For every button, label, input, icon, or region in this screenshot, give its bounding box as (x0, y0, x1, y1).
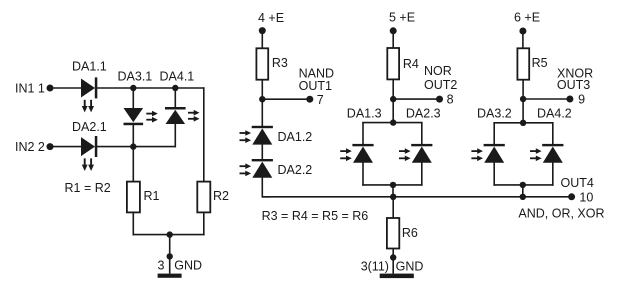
wire terminal 6 to R5 (522, 31, 524, 48)
resistor R6 (387, 218, 399, 249)
photodiode DA4.2 (530, 144, 563, 163)
LED DA2.1 (81, 136, 97, 171)
photodiode DA3.2 (471, 144, 504, 163)
resistor R3 (256, 48, 268, 79)
svg-text:DA1.1: DA1.1 (72, 59, 107, 73)
junction NOR bottom (390, 182, 396, 188)
svg-text:DA2.2: DA2.2 (278, 163, 313, 177)
resistor R1 (127, 182, 140, 213)
node pin 3(11) dot (390, 254, 396, 260)
svg-text:4 +E: 4 +E (258, 11, 284, 25)
svg-text:NOR: NOR (424, 64, 452, 78)
svg-text:R5: R5 (532, 56, 548, 70)
svg-text:DA1.3: DA1.3 (347, 106, 382, 120)
svg-text:DA2.3: DA2.3 (406, 106, 441, 120)
wire NOR bottom to bus (392, 185, 394, 197)
wire IN1 to DA1.1 anode (50, 87, 82, 89)
svg-text:DA3.1: DA3.1 (118, 69, 153, 83)
ground bar (158, 274, 182, 278)
wire DA2.2 to bus corner (262, 178, 270, 197)
wire right branch corner down to R2 (203, 87, 205, 181)
svg-text:6 +E: 6 +E (514, 11, 540, 25)
wire R3 to DA1.2 (261, 80, 263, 126)
wire DA2.1 cathode to DA4.1 corner (97, 146, 175, 148)
wire DA1.2 to DA2.2 (261, 145, 263, 160)
svg-text:3: 3 (158, 259, 165, 273)
wire bottom rail R1-R2 (133, 234, 205, 236)
terminal IN1 (47, 85, 54, 92)
svg-text:OUT1: OUT1 (299, 79, 332, 93)
svg-text:10: 10 (579, 191, 593, 205)
wire NOR branch top connector (362, 122, 422, 124)
junction bottom rail (167, 231, 173, 237)
svg-text:R3 = R4 = R5 = R6: R3 = R4 = R5 = R6 (262, 209, 369, 223)
terminal 8 (436, 96, 443, 103)
svg-text:GND: GND (396, 260, 424, 274)
wire to terminal 8 (393, 98, 439, 100)
svg-text:DA4.1: DA4.1 (160, 69, 195, 83)
terminal 9 (566, 96, 573, 103)
svg-text:R4: R4 (403, 57, 419, 71)
wire R4 to branch top (392, 79, 394, 122)
junction OUT3 (520, 96, 526, 102)
wire ground stub (169, 235, 171, 274)
svg-text:OUT3: OUT3 (557, 78, 590, 92)
wire XNOR left drop (493, 123, 495, 145)
svg-text:DA4.2: DA4.2 (537, 106, 572, 120)
wire NOR left drop (362, 123, 364, 145)
wire to terminal 9 (523, 98, 570, 100)
svg-text:R1: R1 (144, 189, 160, 203)
wire DA1.1 cathode to right corner (97, 87, 204, 89)
terminal 6 (519, 28, 526, 35)
terminal 4 (259, 27, 266, 34)
wire terminal 4 to R3 (261, 31, 263, 49)
node pin 3 dot (167, 253, 173, 259)
svg-text:OUT4: OUT4 (561, 176, 594, 190)
svg-text:IN2 2: IN2 2 (15, 140, 45, 154)
wire bus to R6 (392, 197, 394, 218)
LED DA3.1 (124, 108, 158, 125)
svg-text:R2: R2 (213, 189, 229, 203)
wire output bus (262, 196, 571, 198)
junction XNOR bottom (520, 182, 526, 188)
wire NOR bottom connector (362, 184, 422, 186)
wire IN2 to DA2.1 anode (50, 146, 82, 148)
svg-text:DA3.2: DA3.2 (477, 106, 512, 120)
wire XNOR branch top connector (493, 122, 553, 124)
svg-text:8: 8 (447, 93, 454, 107)
photodiode DA1.3 (340, 144, 373, 163)
wire DA1.3 to bottom connector (362, 163, 364, 186)
terminal 7 (306, 96, 313, 103)
wire XNOR bottom to bus (522, 185, 524, 197)
wire DA4.1 anode down to IN2 row (174, 124, 176, 147)
svg-text:R3: R3 (272, 56, 288, 70)
resistor R2 (197, 182, 210, 213)
junction top of DA3.1 (130, 85, 136, 91)
resistor R4 (387, 48, 399, 79)
junction OUT1 (259, 96, 265, 102)
svg-text:GND: GND (174, 259, 202, 273)
terminal 5 (390, 27, 397, 34)
LED DA4.1 (165, 107, 200, 124)
wire to terminal 7 (262, 98, 310, 100)
svg-text:9: 9 (578, 93, 585, 107)
wire R2 bottom (203, 212, 205, 235)
wire R1 bottom (132, 212, 134, 235)
wire DA4.2 to bottom connector (552, 163, 554, 186)
junction top of DA4.1 (172, 85, 178, 91)
svg-text:R1 = R2: R1 = R2 (65, 181, 111, 195)
svg-text:DA2.1: DA2.1 (72, 120, 107, 134)
junction NOR branch top (390, 119, 396, 125)
junction OUT2 (390, 96, 396, 102)
svg-text:5 +E: 5 +E (389, 11, 415, 25)
resistor R5 (517, 48, 529, 79)
svg-text:AND, OR, XOR: AND, OR, XOR (518, 207, 604, 221)
svg-text:7: 7 (317, 93, 324, 107)
terminal 10 (568, 193, 575, 200)
terminal IN2 (47, 143, 54, 150)
wire top rail to DA3.1 (132, 88, 134, 109)
junction XNOR branch top (520, 120, 526, 126)
wire DA3.1 cathode to IN2 row (132, 125, 134, 147)
junction bus OUT4 (520, 194, 526, 200)
wire DA3.1 node down to R1 (132, 147, 134, 182)
svg-text:3(11): 3(11) (361, 260, 389, 274)
svg-text:R6: R6 (402, 226, 418, 240)
junction bus R6 (390, 194, 396, 200)
svg-text:OUT2: OUT2 (424, 78, 457, 92)
svg-text:DA1.2: DA1.2 (278, 130, 313, 144)
junction bottom of DA3.1 (130, 143, 136, 149)
wire terminal 5 to R4 (392, 31, 394, 48)
wire R6 to ground (392, 249, 394, 274)
svg-text:IN1 1: IN1 1 (15, 82, 45, 96)
wire top rail to DA4.1 cathode (174, 88, 176, 108)
ground bar middle (380, 274, 414, 279)
wire NOR right drop (421, 123, 423, 145)
photodiode DA2.3 (399, 144, 432, 163)
photodiode DA2.2 (239, 159, 272, 178)
wire XNOR bottom connector (493, 184, 553, 186)
wire DA3.2 to bottom connector (493, 163, 495, 186)
photodiode DA1.2 (239, 126, 272, 145)
LED DA1.1 (81, 77, 97, 112)
wire DA2.3 to bottom connector (421, 163, 423, 186)
wire R5 to branch top (522, 80, 524, 123)
wire XNOR right drop (552, 123, 554, 145)
